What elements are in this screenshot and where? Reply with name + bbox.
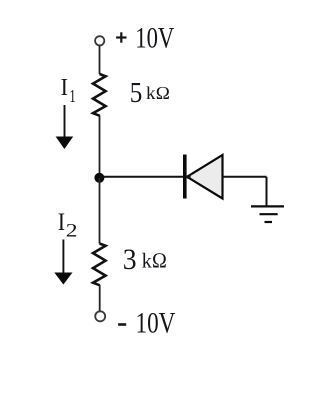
svg-text:I: I xyxy=(58,209,65,237)
svg-text:I: I xyxy=(61,74,68,101)
svg-text:kΩ: kΩ xyxy=(146,83,170,104)
svg-text:10V: 10V xyxy=(136,306,176,339)
svg-text:2: 2 xyxy=(66,220,78,241)
svg-text:1: 1 xyxy=(69,87,75,106)
svg-text:3: 3 xyxy=(123,243,137,276)
svg-text:5: 5 xyxy=(130,77,143,109)
svg-text:10V: 10V xyxy=(135,22,174,54)
svg-text:kΩ: kΩ xyxy=(142,248,167,273)
